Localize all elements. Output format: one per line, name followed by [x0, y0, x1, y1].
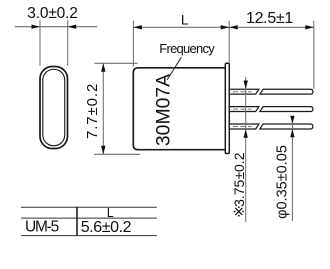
svg-text:UM-5: UM-5 [25, 218, 59, 235]
svg-text:7.7±0.2: 7.7±0.2 [84, 83, 101, 139]
svg-text:12.5±1: 12.5±1 [246, 10, 293, 27]
svg-text:3.0±0.2: 3.0±0.2 [27, 5, 78, 22]
svg-text:L: L [181, 12, 189, 28]
svg-text:3.75±0.2: 3.75±0.2 [231, 152, 247, 207]
svg-text:Frequency: Frequency [159, 41, 215, 56]
svg-text:5.6±0.2: 5.6±0.2 [81, 219, 132, 236]
svg-text:φ0.35±0.05: φ0.35±0.05 [274, 145, 290, 219]
svg-text:30M07A: 30M07A [152, 74, 174, 146]
